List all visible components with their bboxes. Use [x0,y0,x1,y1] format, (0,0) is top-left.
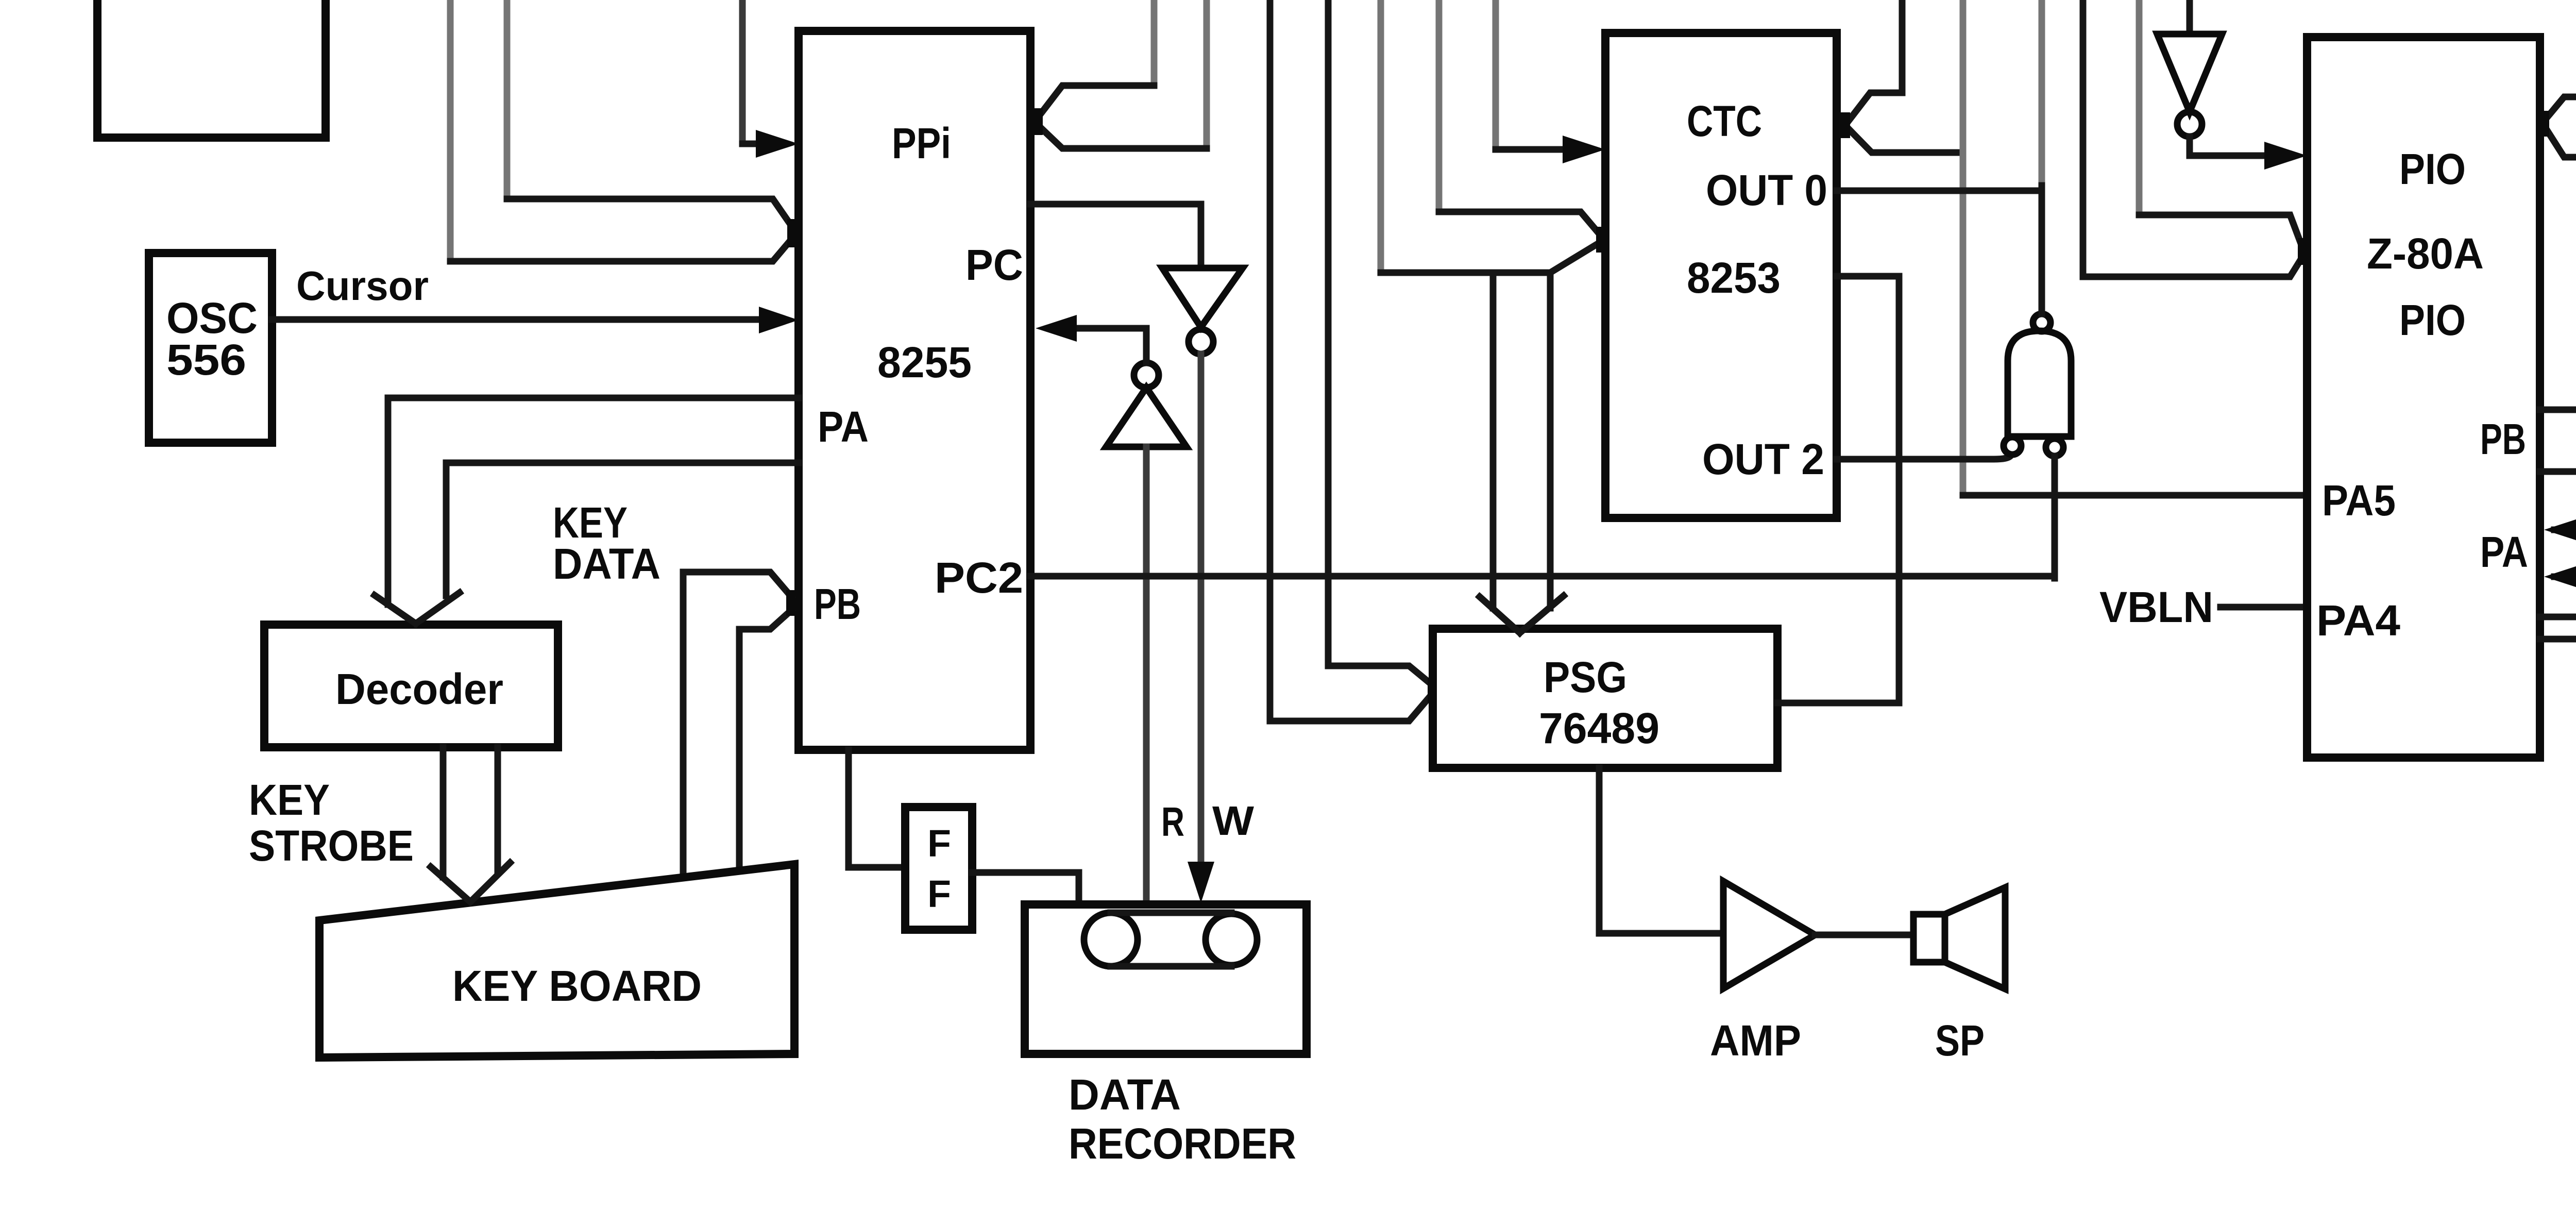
arrow V into keyboard [431,863,510,902]
svg-text:PIO: PIO [2399,296,2466,344]
svg-text:8253: 8253 [1687,254,1781,302]
svg-text:VBLN: VBLN [2099,583,2213,631]
inverter W (pointing down) [1162,268,1243,327]
wire P2 printer data bus lower [2540,472,2576,590]
junction blob bus arrow into CTC right [1841,112,1850,138]
svg-text:W: W [1212,798,1255,844]
inverter PIO triangle [2157,34,2222,112]
svg-text:PB: PB [814,580,861,628]
svg-text:PPi: PPi [892,119,951,167]
wire inverter R output to PPi PC [1067,328,1146,363]
wire PC2 long line [1030,573,2055,580]
svg-text:DATA: DATA [1069,1070,1181,1119]
junction blob bus arrow into PPi right [1033,108,1043,135]
svg-text:CTC: CTC [1687,97,1762,145]
svg-text:AMP: AMP [1710,1016,1801,1065]
wire FF to recorder [972,873,1079,905]
tape reel left [1084,913,1138,966]
wire inverter PIO output [2190,137,2272,156]
svg-text:OUT 2: OUT 2 [1702,435,1824,483]
wire bus into PPi right edge lower from top x2342 [1204,0,1210,148]
arrow into PIO left y302 [2264,142,2307,170]
block PSG 76489 [1433,629,1777,768]
bubble NAND output [2033,314,2050,331]
arrow P4 into PIO right [2544,564,2576,590]
wire bus into PIO left upper from top x4152 [2136,0,2143,215]
svg-text:KEY: KEY [249,776,330,824]
wire PPi bottom to FF [849,750,905,867]
wire NAND right input down to PC2 [2052,456,2058,578]
wire wide bus down to PSG left vertical [1490,275,1497,608]
speaker horn [1945,887,2005,989]
tape lines [1111,913,1231,966]
arrow R into PPi right edge [1036,315,1077,342]
bubble NAND input left [2004,437,2021,455]
bubble inverter R [1134,363,1159,388]
junction blob bus arrow into PPi left [787,219,796,247]
svg-text:76489: 76489 [1539,704,1659,752]
block FF flip-flop [905,807,972,930]
speaker SP [1913,914,1945,962]
svg-text:KEY BOARD: KEY BOARD [452,962,702,1010]
junction blob bus arrow into PSG left [1428,678,1437,702]
svg-text:PSG: PSG [1544,653,1627,701]
wire P4 ctrl bus lower [2554,577,2576,655]
svg-text:PA5: PA5 [2322,476,2396,525]
block CRT (open-top box, cut off at page top) [97,0,326,138]
wire from top into PPi left (arrow at y279) [739,0,746,144]
bubble inverter W [1189,329,1213,354]
wire from top x2578 to PSG left [1328,0,1433,685]
wire diag lower into CTC bus arrow [1550,242,1600,273]
wire Decoder to keyboard left [440,747,447,877]
svg-text:SP: SP [1935,1016,1985,1065]
arrow cursor into PPi [759,307,799,333]
block DATA RECORDER [1025,904,1307,1054]
svg-text:OSC: OSC [166,294,258,342]
wire bus into PIO left lower from top x4043 [2083,0,2302,277]
bubble inverter PIO [2177,112,2202,137]
svg-text:PA: PA [2480,528,2528,576]
block PPi 8255 [799,31,1030,750]
wire PPi PC to inverter W input [1030,204,1201,267]
junction blob bus arrow into PIO left [2298,238,2307,265]
svg-text:Z-80A: Z-80A [2367,229,2484,278]
svg-text:F: F [927,873,951,915]
wire bus into CTC right edge from top lower x3810 [1960,0,1967,153]
wire AMP to SP [1815,932,1913,938]
wire VBLN to PIO PA4 [2221,604,2307,611]
wire bus upper from top x984 [504,0,511,199]
svg-text:STROBE: STROBE [249,821,414,870]
wire P6 to XOR input 3 [2540,639,2576,735]
svg-text:PIO: PIO [2399,145,2466,193]
svg-text:PA4: PA4 [2316,596,2400,645]
arrow into PPi left y279 [756,130,799,158]
wire from top x2465 to PSG left [1270,0,1433,721]
svg-text:PC2: PC2 [935,553,1023,602]
svg-text:556: 556 [166,335,246,384]
svg-text:R: R [1161,799,1184,845]
arrow into CTC left y290 [1563,136,1605,163]
block PIO Z-80A [2307,37,2540,758]
wire PA lower to decoder bus [446,463,799,596]
block CTC 8253 [1605,33,1837,518]
svg-text:OUT 0: OUT 0 [1706,166,1827,214]
block KEY BOARD (trapezoid) [319,864,794,1058]
svg-text:PB: PB [2480,415,2526,463]
wire cursor OSC to PPi [272,316,768,323]
wire PA upper to decoder bus [388,398,799,605]
svg-text:DATA: DATA [553,540,660,588]
svg-text:PC: PC [965,241,1023,289]
wire from top x2793 into CTC bus arrow upper [1436,0,1443,212]
wire wide bus down to PSG right vertical [1547,273,1554,608]
wire W line down to recorder [1198,354,1205,870]
wire OUT 2 to NAND left input [1837,456,2011,459]
wire x3810 down to PIO PA5 [1960,153,1967,495]
svg-text:F: F [927,822,951,865]
wire CTC right y536 to PSG right edge [1777,276,1899,703]
svg-text:Cursor: Cursor [296,263,429,309]
wire keyboard to PPi PB upper [683,572,791,876]
junction blob bus arrow into PIO right [2540,111,2549,137]
svg-text:RECORDER: RECORDER [1069,1119,1296,1168]
wire bus into CTC right edge from top upper x3692 [1850,0,1902,120]
block OSC 556 [149,253,272,443]
tape reel right [1206,914,1257,965]
block AMP triangle [1723,881,1815,988]
wire P3 ctrl bus upper [2554,530,2576,616]
wire P1 printer data bus upper [2540,410,2576,535]
wire bus into PPi right edge upper from top x2240 [1151,0,1158,86]
wire keyboard to PPi PB lower [739,610,791,870]
svg-text:Decoder: Decoder [335,665,503,713]
arrow V into PSG top [1480,596,1564,633]
wire Decoder to keyboard right [495,747,501,872]
wire from top x2680 bus top horizontal [1378,0,1384,273]
svg-text:PA: PA [818,402,869,451]
arrow P3 into PIO right [2544,517,2576,543]
inverter R (pointing up) [1106,388,1187,447]
svg-text:8255: 8255 [877,338,972,387]
junction blob bus arrow into PPi PB [786,590,795,616]
wire bus lower from top x874 [447,0,454,261]
wire from top x2903 arrow into CTC [1493,0,1499,149]
bubble NAND input right [2046,439,2063,456]
arrow W into recorder [1188,862,1214,903]
wire PSG to AMP [1599,768,1723,933]
wire OUT 0 to NAND output node [1837,188,2042,194]
wire NAND output up to top [2039,0,2045,186]
NAND gate (inverted, inputs at bottom) [2008,331,2071,437]
wire P5 to XOR input 1 [2540,617,2576,680]
block Decoder [264,625,558,747]
wire R line recorder to inverter [1143,447,1150,904]
junction blob bus arrow into CTC left [1596,227,1605,253]
inverter into PIO (pointing down) [2187,0,2193,34]
arrow V into Decoder top [375,593,460,624]
